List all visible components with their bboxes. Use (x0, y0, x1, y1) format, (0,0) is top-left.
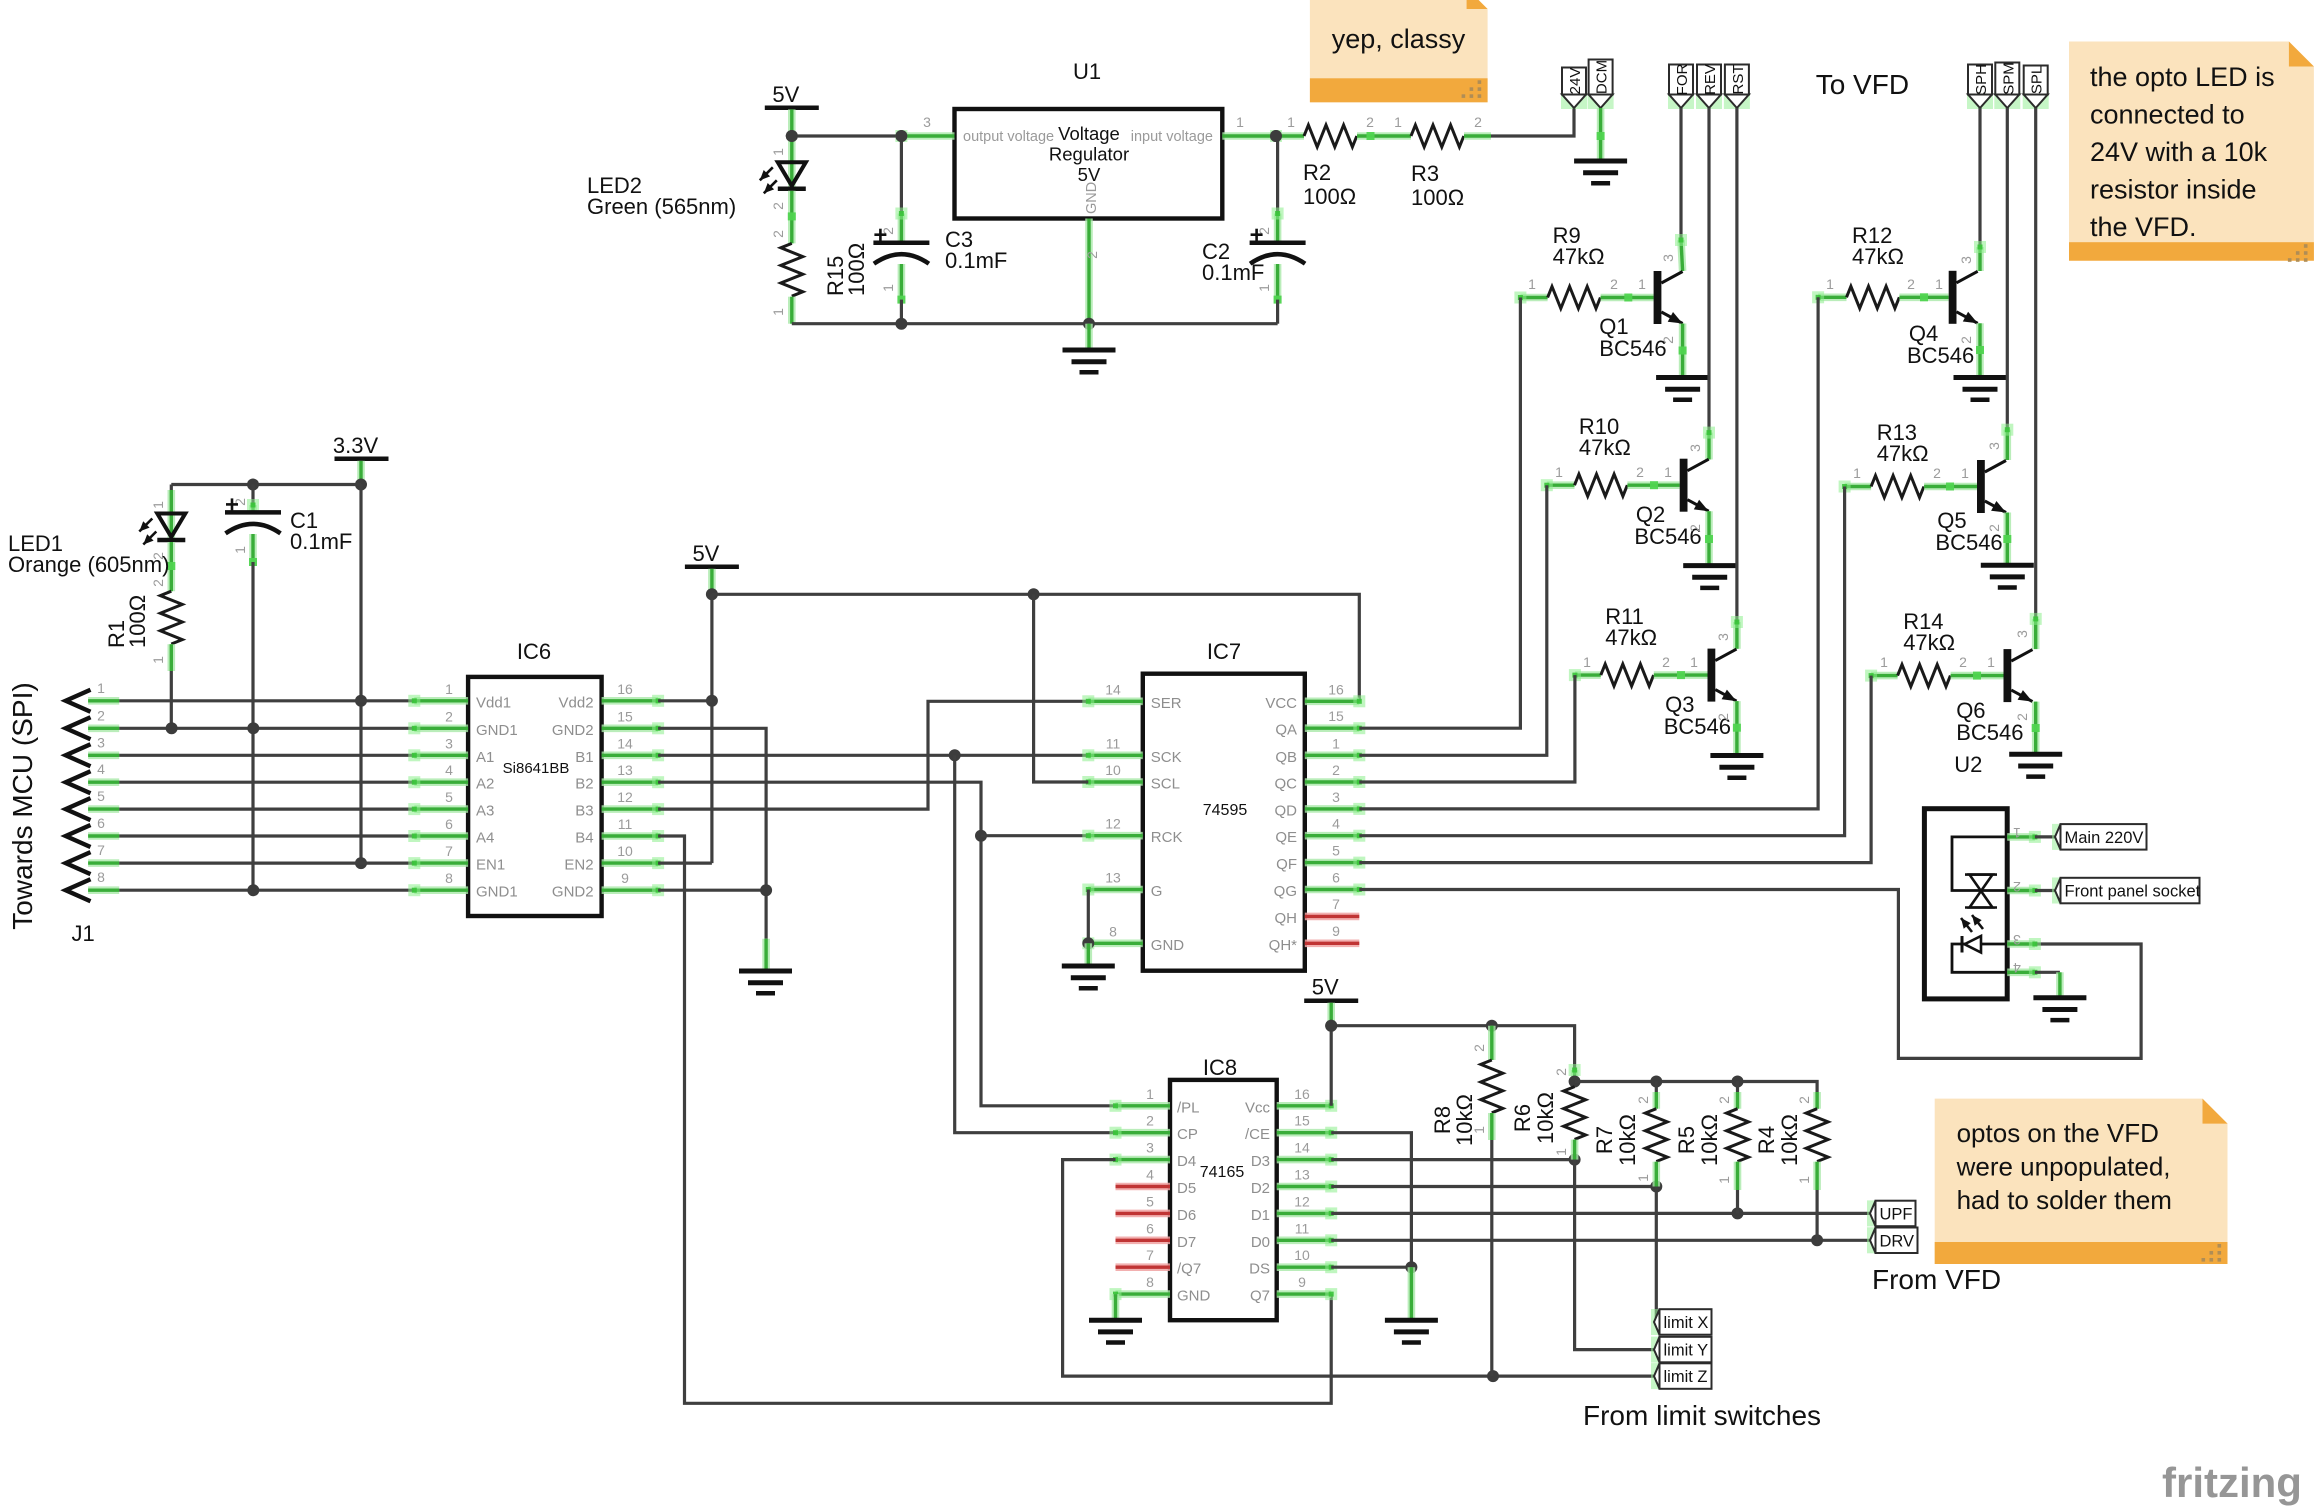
svg-text:11: 11 (1106, 735, 1121, 751)
net flag limit X (1651, 1309, 1712, 1335)
svg-text:7: 7 (1146, 1247, 1154, 1263)
transistor Q2 (1680, 459, 1709, 512)
IC8 D0 wire to R4 and DRV (1331, 1239, 1870, 1242)
svg-text:14: 14 (1294, 1140, 1310, 1156)
resistor R10 (1541, 479, 1575, 491)
svg-text:From VFD: From VFD (1872, 1264, 2001, 1295)
svg-text:47kΩ: 47kΩ (1852, 244, 1904, 269)
svg-text:1: 1 (1987, 654, 1995, 670)
Q1 emitter leg (1679, 324, 1687, 378)
J1 pin 8 arrow (66, 879, 91, 901)
wire J1 pin 3 to IC6 (119, 754, 414, 757)
capacitor C3 (900, 136, 903, 214)
svg-text:2: 2 (770, 202, 786, 210)
svg-text:12: 12 (617, 789, 633, 805)
svg-text:R5: R5 (1674, 1126, 1699, 1154)
resistor R13 (1839, 481, 1872, 493)
J1 pin 5 arrow (66, 798, 91, 820)
svg-text:1: 1 (1332, 735, 1340, 751)
svg-text:1: 1 (770, 148, 786, 156)
svg-text:D1: D1 (1251, 1207, 1270, 1224)
svg-text:1: 1 (1796, 1176, 1812, 1184)
svg-text:24V: 24V (1567, 68, 1584, 95)
svg-text:10kΩ: 10kΩ (1452, 1094, 1477, 1146)
svg-text:1: 1 (880, 284, 896, 292)
svg-text:2: 2 (1471, 1044, 1487, 1052)
svg-text:input voltage: input voltage (1131, 129, 1213, 145)
svg-text:J1: J1 (72, 921, 95, 946)
svg-text:47kΩ: 47kΩ (1553, 244, 1605, 269)
svg-text:VCC: VCC (1265, 695, 1297, 712)
svg-text:DCM: DCM (1594, 60, 1611, 94)
svg-text:3: 3 (445, 735, 453, 751)
svg-text:GND2: GND2 (552, 722, 594, 739)
svg-text:connected to: connected to (2090, 100, 2245, 130)
svg-text:12: 12 (1105, 816, 1121, 832)
svg-text:EN2: EN2 (564, 857, 593, 874)
svg-text:GND: GND (1084, 182, 1100, 214)
svg-text:Si8641BB: Si8641BB (503, 760, 570, 777)
svg-text:15: 15 (617, 708, 633, 724)
ground rail under U1 (792, 322, 1278, 325)
svg-text:1: 1 (1664, 464, 1672, 480)
svg-text:Regulator: Regulator (1049, 144, 1129, 165)
wire QE to R13 (1359, 487, 1844, 836)
svg-text:4: 4 (1332, 816, 1340, 832)
net flag limit Y (1651, 1337, 1712, 1363)
svg-text:3: 3 (1687, 444, 1703, 452)
net flag SPL (2023, 66, 2049, 110)
svg-text:4: 4 (445, 762, 453, 778)
svg-text:3: 3 (1715, 633, 1731, 641)
wire QA to R9 (1359, 298, 1520, 729)
svg-text:24V with a 10k: 24V with a 10k (2090, 137, 2268, 167)
svg-text:R4: R4 (1754, 1126, 1779, 1154)
IC8 /CE wire (1331, 1133, 1411, 1268)
IC8 D5 unconnected pin (1116, 1183, 1171, 1191)
svg-text:Vdd2: Vdd2 (559, 694, 594, 711)
svg-text:Vdd1: Vdd1 (476, 694, 511, 711)
LED2 symbol (760, 162, 806, 193)
wire FOR to Q1 collector (1679, 108, 1682, 240)
svg-text:3: 3 (97, 734, 105, 750)
node C1 top (247, 479, 259, 491)
wire J1 pin 6 to IC6 (119, 834, 414, 837)
svg-text:CP: CP (1177, 1126, 1198, 1143)
svg-text:R7: R7 (1592, 1126, 1617, 1154)
svg-text:2: 2 (1553, 1068, 1569, 1076)
U2 pin 2 leg (2007, 885, 2041, 897)
svg-text:2: 2 (445, 708, 453, 724)
LED1 Orange (170, 485, 173, 491)
LED2 Green (788, 136, 796, 162)
ground Q2 (1683, 566, 1736, 588)
ground DS (1385, 1320, 1438, 1342)
svg-text:8: 8 (97, 869, 105, 885)
wire QD to R12 (1359, 297, 1818, 809)
3.3V power symbol (333, 433, 389, 459)
svg-text:QA: QA (1275, 722, 1297, 739)
sticky note: yep, classy (1310, 0, 1488, 102)
wire 3.3V riser to Vdd1/EN1 (359, 485, 362, 864)
wire QG to U2 pin3 (1359, 890, 2141, 1059)
svg-text:3: 3 (1986, 442, 2002, 450)
IC8 D6 unconnected pin (1116, 1210, 1171, 1218)
svg-text:6: 6 (97, 815, 105, 831)
svg-text:/Q7: /Q7 (1177, 1261, 1201, 1278)
ground Q6 (2009, 754, 2062, 776)
svg-text:the VFD.: the VFD. (2090, 212, 2197, 242)
svg-text:A4: A4 (476, 830, 494, 847)
svg-text:10: 10 (1294, 1247, 1310, 1263)
svg-text:1: 1 (1635, 1174, 1651, 1182)
ground stem U1 (1085, 324, 1093, 350)
svg-text:1: 1 (1690, 654, 1698, 670)
IC6 B2 wire to RCK//PL riser (658, 782, 1115, 1106)
svg-text:1: 1 (1961, 465, 1969, 481)
wire SPH to Q4 collector (1978, 108, 1981, 247)
J1 pin 4 arrow (66, 771, 91, 793)
svg-text:U1: U1 (1073, 59, 1101, 84)
svg-text:3: 3 (923, 114, 931, 130)
U2 pin 4 leg (2007, 966, 2041, 978)
node U1 input (1270, 130, 1282, 142)
ground DCM (1574, 161, 1627, 183)
svg-text:16: 16 (1294, 1086, 1310, 1102)
svg-text:1: 1 (1826, 276, 1834, 292)
svg-text:1: 1 (1853, 465, 1861, 481)
SCK riser to IC8 CP (955, 755, 1116, 1132)
svg-text:74165: 74165 (1200, 1164, 1245, 1181)
svg-text:had to solder them: had to solder them (1957, 1185, 2172, 1215)
svg-text:7: 7 (1332, 896, 1340, 912)
svg-text:QB: QB (1275, 749, 1297, 766)
Q6 emitter leg (2032, 702, 2040, 755)
Q3 emitter leg (1733, 701, 1741, 755)
svg-text:0.1mF: 0.1mF (945, 248, 1007, 273)
svg-text:16: 16 (617, 681, 633, 697)
svg-text:2: 2 (1907, 276, 1915, 292)
svg-text:9: 9 (621, 870, 629, 886)
svg-text:6: 6 (445, 816, 453, 832)
J1 pin 1 arrow (66, 690, 91, 712)
svg-text:6: 6 (1146, 1220, 1154, 1236)
svg-text:Towards MCU (SPI): Towards MCU (SPI) (7, 682, 38, 929)
resistor R3 (1385, 132, 1412, 140)
junction dots on top (895, 130, 907, 142)
svg-text:2: 2 (1474, 114, 1482, 130)
svg-text:BC546: BC546 (1599, 336, 1666, 361)
IC6 B3 wire to IC7 SER (658, 701, 1088, 809)
svg-text:11: 11 (618, 816, 633, 832)
IC8 D2 wire to R7 (1331, 1185, 1656, 1188)
ground U2 pin4 (2033, 998, 2086, 1020)
svg-text:D6: D6 (1177, 1207, 1196, 1224)
svg-text:10kΩ: 10kΩ (1697, 1114, 1722, 1166)
svg-text:2: 2 (1933, 465, 1941, 481)
svg-text:100Ω: 100Ω (844, 243, 869, 296)
svg-text:1: 1 (1553, 1148, 1569, 1156)
svg-text:B2: B2 (575, 776, 593, 793)
svg-text:R3: R3 (1411, 161, 1439, 186)
svg-text:SCK: SCK (1151, 749, 1182, 766)
svg-text:2: 2 (1796, 1096, 1812, 1104)
svg-text:2: 2 (150, 579, 166, 587)
IC8 GND leg to ground (1112, 1294, 1120, 1320)
svg-text:13: 13 (1294, 1167, 1310, 1183)
sticky note: opto LED (2069, 42, 2314, 262)
resistor R1 (160, 591, 182, 644)
J1 pin 7 arrow (66, 852, 91, 874)
svg-text:4: 4 (1146, 1167, 1154, 1183)
IC7 74595 (1143, 674, 1305, 971)
svg-text:SPL: SPL (2029, 66, 2046, 94)
svg-text:1: 1 (1528, 276, 1536, 292)
svg-text:D4: D4 (1177, 1153, 1196, 1170)
svg-text:output voltage: output voltage (963, 129, 1054, 145)
LED1 symbol (139, 514, 185, 545)
wire J1 pin 5 to IC6 (119, 807, 414, 810)
svg-text:100Ω: 100Ω (125, 595, 150, 648)
svg-text:3: 3 (1146, 1140, 1154, 1156)
svg-text:2: 2 (1610, 276, 1618, 292)
svg-text:QE: QE (1275, 829, 1297, 846)
svg-text:SER: SER (1151, 695, 1182, 712)
rail to R7/R5/R4 tops (1575, 1082, 1818, 1109)
svg-text:Orange (605nm): Orange (605nm) (8, 552, 169, 577)
svg-text:/PL: /PL (1177, 1099, 1200, 1116)
U2 triac side (1952, 837, 2007, 891)
svg-text:QF: QF (1276, 856, 1297, 873)
svg-text:5: 5 (1146, 1193, 1154, 1209)
svg-text:GND1: GND1 (476, 884, 518, 901)
wire J1 pin 1 to IC6 (119, 699, 414, 702)
svg-text:RCK: RCK (1151, 829, 1183, 846)
svg-text:11: 11 (1295, 1220, 1310, 1236)
svg-text:GND: GND (1151, 937, 1185, 954)
wire J1 pin 2 to IC6 (119, 727, 414, 730)
wire R6 to limit Y (1575, 1160, 1654, 1350)
svg-text:2: 2 (2014, 713, 2030, 721)
svg-text:1: 1 (1394, 114, 1402, 130)
svg-text:4: 4 (97, 761, 105, 777)
wire QC to R11 (1359, 675, 1575, 782)
svg-text:1: 1 (150, 656, 166, 664)
svg-text:1: 1 (1555, 464, 1563, 480)
svg-text:UPF: UPF (1880, 1205, 1913, 1223)
IC7 QH* unconnected pin (1305, 939, 1360, 947)
transistor Q4 (1949, 271, 1978, 324)
svg-text:1: 1 (97, 680, 105, 696)
IC7 QH unconnected pin (1305, 913, 1360, 921)
svg-text:2: 2 (1084, 251, 1100, 259)
svg-text:3.3V: 3.3V (333, 433, 379, 458)
transistor Q5 (1977, 460, 2006, 513)
svg-text:1: 1 (1146, 1086, 1154, 1102)
svg-text:1: 1 (1880, 654, 1888, 670)
resistor R12 (1812, 291, 1846, 303)
svg-text:2: 2 (1146, 1113, 1154, 1129)
svg-text:10kΩ: 10kΩ (1777, 1114, 1802, 1166)
svg-text:D0: D0 (1251, 1234, 1270, 1251)
svg-text:were unpopulated,: were unpopulated, (1956, 1152, 2171, 1182)
svg-text:5V: 5V (772, 82, 799, 107)
IC6 B4 wire to IC8 Q7 (658, 836, 1331, 1403)
svg-text:FOR: FOR (1674, 64, 1691, 96)
svg-text:D7: D7 (1177, 1234, 1196, 1251)
wire 5V to U1 output (792, 134, 902, 137)
svg-text:1: 1 (1236, 114, 1244, 130)
svg-text:8: 8 (1146, 1274, 1154, 1290)
svg-text:10kΩ: 10kΩ (1533, 1092, 1558, 1144)
IC8 D1 wire to R5 and UPF (1331, 1212, 1870, 1215)
resistor R8 (1488, 1026, 1496, 1060)
IC7 G to GND tie + ground (1087, 890, 1090, 944)
svg-text:B3: B3 (575, 803, 593, 820)
svg-text:14: 14 (617, 735, 633, 751)
wire RST to Q3 collector (1735, 108, 1738, 622)
svg-text:1: 1 (1638, 276, 1646, 292)
svg-text:3: 3 (2013, 932, 2021, 948)
svg-text:3: 3 (2014, 630, 2030, 638)
svg-text:1: 1 (770, 308, 786, 316)
svg-text:limit X: limit X (1664, 1314, 1709, 1332)
svg-text:2: 2 (1986, 524, 2002, 532)
svg-text:3: 3 (1660, 254, 1676, 262)
IC6 B1 wire to IC7 SCK (658, 754, 1088, 757)
svg-text:D3: D3 (1251, 1153, 1270, 1170)
IC6 EN2 wire (658, 861, 712, 864)
J1 pin 3 arrow (66, 744, 91, 766)
IC8 DS wire + ground (1331, 1266, 1411, 1269)
svg-text:BC546: BC546 (1907, 343, 1974, 368)
resistor R6 (1569, 1064, 1581, 1087)
U2 pin 3 leg (2007, 938, 2041, 950)
resistor R5 (1736, 1082, 1739, 1093)
svg-text:Front panel socket: Front panel socket (2065, 883, 2201, 901)
IC6 Si8641BB (468, 677, 601, 916)
svg-text:GND: GND (1177, 1288, 1211, 1305)
svg-text:SPM: SPM (2000, 62, 2017, 95)
IC8 D3 wire to R6 (1331, 1158, 1574, 1161)
J1 pin 6 arrow (66, 825, 91, 847)
svg-text:100Ω: 100Ω (1411, 185, 1464, 210)
svg-text:QG: QG (1274, 883, 1297, 900)
svg-text:R2: R2 (1303, 160, 1331, 185)
svg-text:13: 13 (617, 762, 633, 778)
5V power symbol (top-left) (765, 82, 819, 108)
svg-text:B1: B1 (575, 749, 593, 766)
svg-text:DS: DS (1249, 1261, 1270, 1278)
svg-text:0.1mF: 0.1mF (1202, 260, 1264, 285)
svg-text:QD: QD (1275, 802, 1298, 819)
svg-text:5V: 5V (1312, 975, 1339, 1000)
svg-text:12: 12 (1294, 1193, 1310, 1209)
svg-text:B4: B4 (575, 830, 593, 847)
U1 pin 3 output leg (895, 130, 954, 142)
svg-text:5: 5 (97, 788, 105, 804)
svg-text:1: 1 (150, 501, 166, 509)
svg-text:SCL: SCL (1151, 776, 1180, 793)
svg-text:EN1: EN1 (476, 857, 505, 874)
transistor Q6 (2004, 649, 2033, 702)
svg-text:47kΩ: 47kΩ (1903, 630, 1955, 655)
wire QB to R10 (1359, 485, 1547, 755)
svg-text:2: 2 (1636, 464, 1644, 480)
capacitor C1 (251, 485, 254, 506)
wire REV to Q2 collector (1707, 108, 1710, 433)
svg-text:2: 2 (1366, 114, 1374, 130)
svg-text:RST: RST (1730, 65, 1747, 95)
svg-text:BC546: BC546 (1956, 720, 2023, 745)
svg-text:15: 15 (1294, 1113, 1310, 1129)
ground IC6 GND2 (739, 971, 792, 993)
net flag REV (1696, 64, 1722, 109)
svg-text:47kΩ: 47kΩ (1877, 441, 1929, 466)
svg-text:6: 6 (1332, 870, 1340, 886)
U2 pin 1 leg (2007, 831, 2041, 843)
resistor R9 (1514, 292, 1547, 304)
svg-text:D5: D5 (1177, 1180, 1196, 1197)
svg-text:14: 14 (1105, 681, 1121, 697)
svg-text:A1: A1 (476, 749, 494, 766)
J1 pin 2 arrow (66, 717, 91, 739)
wire 3.3V rail (171, 483, 361, 486)
net flag FOR (1668, 64, 1694, 109)
5V power symbol (middle) (685, 541, 739, 567)
wire QF to R14 (1359, 676, 1871, 863)
svg-text:QH: QH (1275, 910, 1298, 927)
net flag UPF (1867, 1200, 1916, 1226)
svg-text:Vcc: Vcc (1245, 1099, 1271, 1116)
svg-text:2: 2 (2013, 879, 2021, 895)
svg-text:/CE: /CE (1245, 1126, 1270, 1143)
transistor Q1 (1654, 271, 1683, 324)
wire SCL riser to 5V (1034, 594, 1089, 782)
svg-text:GND2: GND2 (552, 884, 594, 901)
node 5V/LED2 (786, 130, 798, 142)
IC8 Vcc riser (1330, 1026, 1333, 1106)
svg-text:2: 2 (1716, 1096, 1732, 1104)
svg-text:1: 1 (1583, 654, 1591, 670)
optocoupler U2 (1924, 809, 2007, 999)
svg-text:Voltage: Voltage (1058, 123, 1120, 144)
svg-text:DRV: DRV (1880, 1232, 1915, 1250)
sticky note: optos on the VFD (1935, 1099, 2228, 1264)
svg-text:1: 1 (445, 681, 453, 697)
svg-text:1: 1 (1256, 284, 1272, 292)
svg-text:yep, classy: yep, classy (1332, 24, 1466, 54)
svg-text:16: 16 (1328, 681, 1344, 697)
svg-text:1: 1 (1716, 1176, 1732, 1184)
5V power symbol (above IC8) (1304, 975, 1358, 1001)
ground Q1 (1656, 378, 1709, 400)
net flag DRV (1867, 1227, 1918, 1253)
svg-text:47kΩ: 47kΩ (1579, 435, 1631, 460)
svg-text:8: 8 (1109, 923, 1117, 939)
svg-text:IC8: IC8 (1203, 1055, 1237, 1080)
svg-text:74595: 74595 (1203, 802, 1248, 819)
resistor R14 (1865, 670, 1898, 682)
svg-text:2: 2 (1958, 336, 1974, 344)
Q5 emitter leg (2004, 513, 2012, 566)
net flag SPH (1967, 64, 1993, 109)
svg-text:15: 15 (1328, 708, 1344, 724)
IC8 D4 wire to limit Z (1063, 1160, 1654, 1377)
svg-text:2: 2 (1662, 654, 1670, 670)
net flag SPM (1994, 62, 2020, 109)
5V rail over resistors (1331, 1026, 1574, 1070)
